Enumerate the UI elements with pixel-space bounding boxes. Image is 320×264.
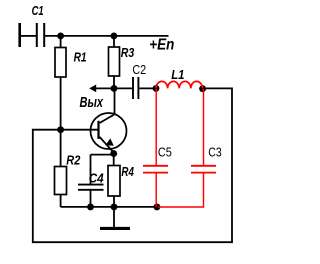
svg-text:C2: C2 [132, 63, 146, 77]
svg-text:C1: C1 [32, 4, 44, 18]
svg-text:R4: R4 [121, 164, 134, 179]
svg-text:R2: R2 [66, 152, 81, 167]
svg-text:C5: C5 [158, 146, 172, 160]
svg-text:+En: +En [149, 37, 174, 54]
svg-text:R1: R1 [74, 51, 87, 65]
svg-text:R3: R3 [121, 46, 135, 60]
svg-text:Вых: Вых [80, 95, 104, 111]
svg-text:C3: C3 [208, 146, 222, 160]
svg-text:L1: L1 [171, 67, 184, 82]
svg-text:C4: C4 [89, 171, 105, 186]
